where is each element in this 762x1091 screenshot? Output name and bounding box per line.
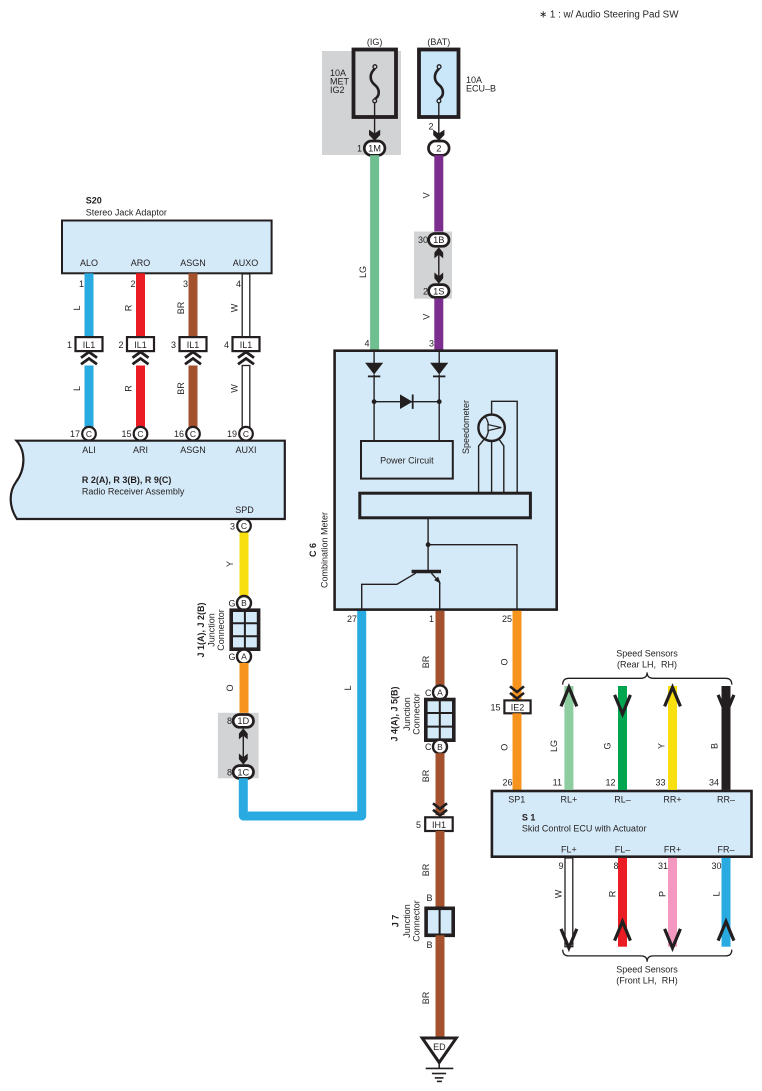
svg-text:W: W <box>230 384 240 393</box>
wire V upper from fuse BAT to 1B <box>434 155 443 232</box>
svg-text:B: B <box>241 598 247 608</box>
wire L S20 pin1 to IL1 <box>85 273 94 337</box>
svg-text:Connector: Connector <box>412 693 422 735</box>
svg-text:26: 26 <box>502 778 512 788</box>
fuse (IG) 10A MET IG2 <box>330 37 396 117</box>
svg-text:A: A <box>241 652 247 662</box>
svg-text:2: 2 <box>436 144 441 154</box>
svg-text:33: 33 <box>655 778 665 788</box>
junction connector J1(A) J2(B) <box>196 602 259 657</box>
svg-text:C: C <box>137 429 143 439</box>
svg-text:ALI: ALI <box>82 445 96 455</box>
svg-text:P: P <box>658 891 668 897</box>
svg-text:RR+: RR+ <box>663 795 681 805</box>
component S20 Stereo Jack Adaptor <box>62 196 272 274</box>
svg-text:O: O <box>500 744 510 751</box>
svg-text:W: W <box>230 303 240 312</box>
svg-text:W: W <box>554 889 564 898</box>
connector IL1 no4 <box>224 337 260 364</box>
svg-text:Speedometer: Speedometer <box>461 400 471 454</box>
svg-text:SP1: SP1 <box>508 795 525 805</box>
svg-text:Connector: Connector <box>412 900 422 942</box>
ground ED <box>422 1038 456 1081</box>
svg-text:FR+: FR+ <box>664 845 681 855</box>
svg-text:ASGN: ASGN <box>180 258 206 268</box>
pin B of J1 <box>228 596 251 610</box>
svg-text:J 4(A), J 5(B): J 4(A), J 5(B) <box>389 686 399 741</box>
svg-text:1: 1 <box>429 614 434 624</box>
svg-text:RL+: RL+ <box>561 795 578 805</box>
node dot left <box>372 399 377 404</box>
svg-text:L: L <box>712 891 722 896</box>
wire W FL+ to front sensor <box>565 858 573 947</box>
wire BR IH1 to J7 <box>436 831 445 909</box>
svg-text:Y: Y <box>657 743 667 749</box>
wire G RL- to rear sensor <box>618 686 627 790</box>
svg-text:ARI: ARI <box>133 445 148 455</box>
wire W S20 pin4 to IL1 <box>242 274 250 337</box>
pin 16 C <box>174 427 200 441</box>
svg-text:AUXI: AUXI <box>235 445 256 455</box>
wire BR S20 pin3 to IL1 <box>189 273 198 337</box>
svg-text:3: 3 <box>171 340 176 350</box>
svg-text:Speed Sensors: Speed Sensors <box>616 649 678 659</box>
svg-text:16: 16 <box>174 429 184 439</box>
pin A of J4 <box>425 685 447 699</box>
svg-text:IH1: IH1 <box>432 820 446 830</box>
svg-text:8: 8 <box>227 767 232 777</box>
svg-text:C: C <box>243 429 249 439</box>
wire BR J7 to ground <box>436 935 445 1037</box>
svg-text:Junction: Junction <box>402 697 412 731</box>
svg-text:1D: 1D <box>237 716 249 726</box>
wire LG RL+ to rear sensor <box>564 686 573 790</box>
wire node to pin 25 <box>428 545 517 610</box>
shaded block 1D/1C <box>218 713 259 779</box>
svg-text:L: L <box>72 386 82 391</box>
svg-text:3: 3 <box>429 339 434 349</box>
wire V lower from 1S to meter pin 3 <box>434 299 443 352</box>
component C6 Combination Meter <box>335 351 557 610</box>
wire O IE2 to S1 <box>513 713 522 791</box>
svg-text:30: 30 <box>418 235 428 245</box>
svg-text:1S: 1S <box>433 286 444 296</box>
arrow up FR- <box>718 922 734 941</box>
svg-text:4: 4 <box>364 339 369 349</box>
connector IE2 <box>490 686 530 713</box>
diode D1 at pin 4 <box>365 352 383 402</box>
wire R IL1 to radio <box>136 366 145 428</box>
svg-text:B: B <box>426 940 432 950</box>
wire W IL1 to radio <box>242 366 250 428</box>
svg-text:3: 3 <box>230 521 235 531</box>
svg-text:8: 8 <box>613 861 618 871</box>
speedometer gauge <box>478 415 504 441</box>
connector IL1 no3 <box>171 337 207 364</box>
svg-text:C: C <box>190 429 196 439</box>
svg-text:Combination Meter: Combination Meter <box>320 512 330 588</box>
pin B of J4 <box>425 740 447 754</box>
svg-text:8: 8 <box>227 716 232 726</box>
svg-text:FL+: FL+ <box>561 845 577 855</box>
svg-text:19: 19 <box>227 429 237 439</box>
svg-text:BR: BR <box>421 769 431 782</box>
svg-text:C: C <box>425 688 432 698</box>
svg-text:Speed Sensors: Speed Sensors <box>616 965 678 975</box>
meter circuit bar <box>360 493 531 518</box>
node dot <box>426 542 431 547</box>
svg-text:R: R <box>124 304 134 311</box>
wire Y SPD to junction connector <box>240 533 249 598</box>
svg-text:12: 12 <box>605 778 615 788</box>
svg-text:BR: BR <box>421 991 431 1004</box>
wire to power circuit right <box>438 402 440 441</box>
connector IL1 no1 <box>67 337 103 364</box>
svg-text:31: 31 <box>658 861 668 871</box>
svg-text:Power Circuit: Power Circuit <box>380 456 434 466</box>
connector IH1 <box>416 803 453 831</box>
component S1 Skid Control ECU <box>492 791 752 857</box>
arrow up FL- <box>615 922 631 941</box>
svg-text:L: L <box>72 305 82 310</box>
svg-text:IG2: IG2 <box>330 85 345 95</box>
svg-text:(Rear LH, RH): (Rear LH, RH) <box>617 660 677 670</box>
wire to power circuit left <box>373 402 375 441</box>
brace rear sensors <box>563 672 732 684</box>
pin 15 C <box>121 427 147 441</box>
svg-text:V: V <box>422 192 432 198</box>
svg-text:IL1: IL1 <box>134 340 147 350</box>
svg-text:LG: LG <box>358 266 368 278</box>
connector 1D <box>227 715 254 728</box>
svg-text:SPD: SPD <box>235 505 254 515</box>
svg-text:ALO: ALO <box>80 258 98 268</box>
wire L IL1 to radio <box>85 366 94 428</box>
svg-text:Junction: Junction <box>402 904 412 938</box>
connector 1C <box>227 766 254 779</box>
component R radio receiver assembly <box>11 441 285 519</box>
wire LG from fuse IG to meter pin 4 <box>370 155 379 352</box>
svg-text:ASGN: ASGN <box>180 445 206 455</box>
svg-text:ED: ED <box>433 1042 446 1052</box>
svg-text:B: B <box>437 742 443 752</box>
svg-text:BR: BR <box>421 863 431 876</box>
node dot right <box>437 399 442 404</box>
svg-text:11: 11 <box>553 778 562 788</box>
svg-text:LG: LG <box>549 740 559 752</box>
svg-text:5: 5 <box>416 820 421 830</box>
svg-text:C: C <box>425 742 432 752</box>
svg-text:S 1: S 1 <box>522 813 536 823</box>
svg-text:J 1(A), J 2(B): J 1(A), J 2(B) <box>196 602 206 657</box>
svg-text:G: G <box>603 742 613 749</box>
svg-text:G: G <box>228 598 235 608</box>
svg-text:ECU–B: ECU–B <box>466 84 496 94</box>
svg-text:G: G <box>228 652 235 662</box>
svg-text:FR–: FR– <box>717 845 734 855</box>
svg-text:Junction: Junction <box>207 613 217 647</box>
arrow up RL+ <box>561 687 577 706</box>
connector IL1 no2 <box>118 337 154 364</box>
svg-text:A: A <box>437 688 443 698</box>
svg-text:27: 27 <box>347 614 357 624</box>
svg-text:15: 15 <box>121 429 131 439</box>
wire from bar to transistor <box>427 518 429 570</box>
arrow down FL+ <box>561 929 577 948</box>
svg-text:ARO: ARO <box>131 258 151 268</box>
svg-text:25: 25 <box>502 614 512 624</box>
svg-text:4: 4 <box>224 340 229 350</box>
svg-text:Skid Control ECU with Actuator: Skid Control ECU with Actuator <box>522 824 647 834</box>
svg-text:J 7: J 7 <box>391 915 401 928</box>
svg-text:2: 2 <box>428 122 433 132</box>
diode D3 middle <box>400 394 413 409</box>
svg-text:R: R <box>124 385 134 392</box>
pin 19 C <box>227 427 253 441</box>
svg-text:2: 2 <box>130 279 135 289</box>
svg-text:30: 30 <box>711 861 721 871</box>
svg-text:1C: 1C <box>237 767 249 777</box>
svg-text:1: 1 <box>357 144 362 154</box>
svg-text:4: 4 <box>236 279 241 289</box>
pin A of J1 <box>228 650 251 664</box>
svg-text:17: 17 <box>70 429 80 439</box>
wire BR meter pin1 to JC A <box>436 611 445 686</box>
svg-text:R 2(A), R 3(B), R 9(C): R 2(A), R 3(B), R 9(C) <box>82 475 172 485</box>
svg-text:C: C <box>241 521 247 531</box>
svg-text:2: 2 <box>423 286 428 296</box>
svg-text:(BAT): (BAT) <box>427 37 450 47</box>
svg-text:1: 1 <box>67 340 72 350</box>
svg-text:1B: 1B <box>433 235 444 245</box>
svg-text:IL1: IL1 <box>240 340 253 350</box>
svg-text:S20: S20 <box>86 196 102 206</box>
svg-text:B: B <box>710 743 720 749</box>
wire O meter pin25 to IE2 <box>513 611 522 701</box>
svg-text:(IG): (IG) <box>367 37 383 47</box>
arrow down RR- <box>718 695 734 714</box>
svg-text:∗ 1 : w/ Audio Steering Pad SW: ∗ 1 : w/ Audio Steering Pad SW <box>539 10 679 21</box>
svg-text:O: O <box>225 684 235 691</box>
connector 1B <box>418 234 449 247</box>
svg-text:Stereo Jack Adaptor: Stereo Jack Adaptor <box>86 208 167 218</box>
wire P FR+ to front sensor <box>668 858 677 947</box>
svg-text:1M: 1M <box>368 144 381 154</box>
wire R FL- to front sensor <box>618 858 627 947</box>
svg-text:C 6: C 6 <box>308 543 318 557</box>
svg-text:Y: Y <box>225 561 235 567</box>
svg-text:1: 1 <box>79 279 84 289</box>
svg-text:RL–: RL– <box>614 795 631 805</box>
svg-text:RR–: RR– <box>717 795 735 805</box>
svg-text:BR: BR <box>176 382 186 395</box>
svg-text:2: 2 <box>118 340 123 350</box>
svg-text:IL1: IL1 <box>83 340 96 350</box>
double arrow between 1D and 1C <box>239 728 248 765</box>
transistor Q1 <box>362 572 441 610</box>
svg-text:AUXO: AUXO <box>233 258 259 268</box>
svg-text:BR: BR <box>421 655 431 668</box>
svg-text:IL1: IL1 <box>187 340 200 350</box>
svg-text:34: 34 <box>709 778 719 788</box>
svg-text:FL–: FL– <box>615 845 631 855</box>
diode D2 at pin 3 <box>430 352 448 402</box>
junction connector J4(A) J5(B) <box>389 686 453 741</box>
connector 2 <box>428 103 449 156</box>
svg-text:15: 15 <box>490 703 500 713</box>
wire O J1 to 1D <box>240 663 249 716</box>
connector 1S <box>423 285 449 298</box>
svg-text:Radio Receiver Assembly: Radio Receiver Assembly <box>82 487 185 497</box>
power circuit box <box>361 441 453 479</box>
wire R S20 pin2 to IL1 <box>136 273 145 337</box>
wire BR IL1 to radio <box>189 366 198 428</box>
wire L FR- to front sensor <box>722 858 731 947</box>
svg-text:Connector: Connector <box>216 609 226 651</box>
speedometer frame wires <box>479 401 518 493</box>
svg-text:R: R <box>608 890 618 897</box>
wire BR JC B to IH1 <box>436 753 445 815</box>
wire node bus <box>374 401 439 403</box>
svg-text:IE2: IE2 <box>511 702 525 712</box>
arrow down FR+ <box>665 929 681 948</box>
svg-text:L: L <box>343 685 353 690</box>
pin 17 C <box>70 427 96 441</box>
arrow up RR+ <box>665 687 681 706</box>
shaded block around fuse IG <box>322 51 401 155</box>
connector 1M <box>357 103 385 156</box>
arrow down RL- <box>615 695 631 714</box>
svg-text:O: O <box>500 658 510 665</box>
svg-text:C: C <box>86 429 92 439</box>
fuse (BAT) 10A ECU-B <box>419 37 496 117</box>
pin 3 C SPD <box>230 519 251 533</box>
shaded block 1B/1S <box>414 232 452 299</box>
double arrow between 1B and 1S <box>434 247 443 284</box>
svg-text:(Front LH, RH): (Front LH, RH) <box>616 976 678 986</box>
svg-text:BR: BR <box>176 301 186 314</box>
svg-text:9: 9 <box>558 861 563 871</box>
junction connector J7 <box>391 900 454 942</box>
svg-text:B: B <box>426 893 432 903</box>
wire L from 1C to meter pin 27 <box>243 610 361 816</box>
wire B RR- to rear sensor <box>722 686 731 790</box>
svg-text:V: V <box>422 314 432 320</box>
brace front sensors <box>563 950 732 962</box>
svg-text:3: 3 <box>183 279 188 289</box>
wire Y RR+ to rear sensor <box>668 686 677 790</box>
